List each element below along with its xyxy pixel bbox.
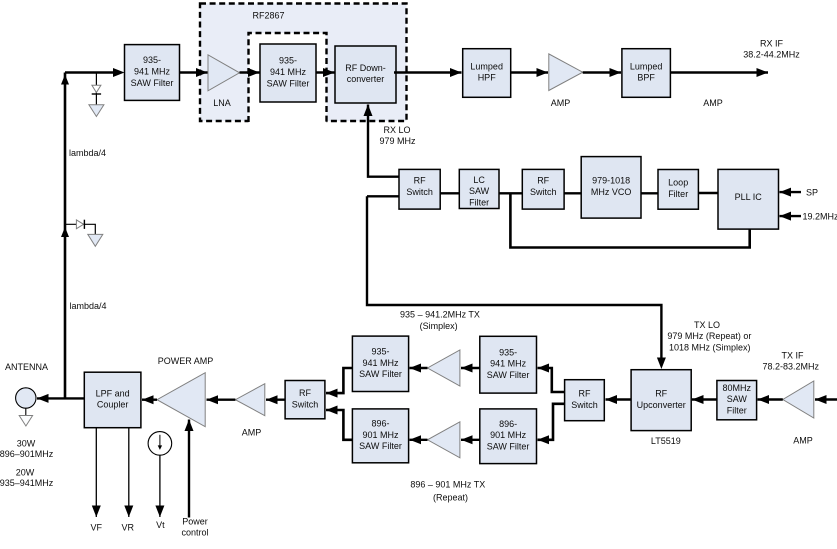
wire power control in	[188, 420, 190, 518]
wire TX IF in	[815, 398, 837, 400]
svg-text:20W: 20W	[16, 468, 35, 478]
wire 896 SAW to amp	[461, 439, 480, 441]
diode D1 (down)	[92, 85, 101, 94]
svg-text:901 MHz: 901 MHz	[490, 430, 527, 440]
svg-text:935 – 941.2MHz TX: 935 – 941.2MHz TX	[400, 310, 480, 320]
svg-text:LT5519: LT5519	[651, 436, 681, 446]
svg-text:Lumped: Lumped	[470, 61, 503, 71]
diode D2 (right)	[76, 220, 84, 229]
wire downconverter to HPF	[394, 71, 462, 73]
svg-text:Filter: Filter	[727, 405, 747, 415]
wire PA switch to driver amp	[266, 399, 285, 401]
svg-text:TX IF: TX IF	[782, 350, 805, 360]
svg-text:SAW Filter: SAW Filter	[487, 442, 530, 452]
block RF switch M2	[522, 169, 564, 209]
svg-text:901 MHz: 901 MHz	[362, 430, 399, 440]
svg-text:AMP: AMP	[242, 428, 262, 438]
svg-text:SAW Filter: SAW Filter	[359, 441, 402, 451]
wire TX LO bus	[367, 196, 661, 358]
termination triangle T1	[89, 105, 104, 117]
block RX SAW filter 2	[260, 44, 316, 102]
wire M2 to VCO	[564, 192, 581, 194]
wire loop filter to PLL	[698, 192, 718, 194]
wire Vt out	[159, 455, 161, 517]
arrowhead up arrow at TX junction	[61, 227, 69, 237]
svg-text:979-1018: 979-1018	[592, 176, 630, 186]
svg-text:Switch: Switch	[406, 187, 433, 197]
svg-text:941 MHz: 941 MHz	[134, 67, 171, 77]
svg-text:AMP: AMP	[551, 98, 571, 108]
svg-text:SAW Filter: SAW Filter	[131, 78, 174, 88]
svg-text:19.2MHz: 19.2MHz	[803, 212, 837, 222]
wire RX top bus	[65, 71, 114, 73]
wire LPF to antenna	[37, 397, 84, 399]
svg-text:BPF: BPF	[637, 73, 655, 83]
svg-text:Lumped: Lumped	[630, 61, 663, 71]
svg-text:RF: RF	[537, 176, 549, 186]
amplifier power amp	[157, 373, 205, 427]
svg-text:RF2867: RF2867	[252, 11, 284, 21]
svg-text:converter: converter	[347, 74, 385, 84]
block Lumped HPF	[463, 49, 511, 98]
block PLL IC	[718, 169, 779, 229]
svg-text:LC: LC	[473, 175, 485, 185]
wire VF out	[95, 428, 97, 517]
wire 896 left to PA switch	[326, 410, 352, 440]
wire power amp to LPF	[142, 399, 157, 401]
block TX SAW 896 left	[352, 409, 408, 463]
limiter stub 1 wire	[95, 73, 97, 105]
svg-text:Upconverter: Upconverter	[637, 400, 686, 410]
svg-text:ANTENNA: ANTENNA	[5, 362, 48, 372]
svg-text:RF Down-: RF Down-	[345, 63, 386, 73]
svg-text:VR: VR	[121, 523, 134, 533]
wire TX amp to 80MHz SAW	[758, 398, 783, 400]
wire M1 to LC SAW	[440, 192, 459, 194]
svg-text:VF: VF	[90, 523, 102, 533]
limiter stub 2 wire	[65, 224, 95, 234]
arrowhead up arrow at RX junction	[61, 75, 69, 85]
svg-text:896-: 896-	[371, 419, 389, 429]
wire amp to 935 SAW left	[410, 367, 428, 369]
svg-text:(Repeat): (Repeat)	[433, 493, 468, 503]
svg-text:LPF and: LPF and	[96, 388, 130, 398]
svg-text:935-: 935-	[143, 55, 161, 65]
meter symbol (Vt sense)	[148, 432, 172, 456]
svg-text:78.2-83.2MHz: 78.2-83.2MHz	[763, 361, 820, 371]
amplifier TX amp upper	[428, 350, 460, 386]
svg-text:POWER AMP: POWER AMP	[158, 356, 214, 366]
svg-text:MHz VCO: MHz VCO	[591, 187, 632, 197]
block TX SAW 935 right	[480, 336, 537, 393]
svg-text:935–941MHz: 935–941MHz	[0, 478, 54, 488]
svg-text:control: control	[181, 528, 208, 538]
svg-text:HPF: HPF	[478, 73, 497, 83]
wire AMP1 to BPF	[583, 71, 621, 73]
wire SAW2 to downconverter	[316, 71, 335, 73]
block LPF and coupler	[84, 372, 141, 428]
wire VR out	[128, 428, 130, 517]
arrowhead into RX SAW filter 1	[113, 68, 125, 77]
wire 19.2MHz input	[780, 215, 802, 217]
svg-text:Switch: Switch	[292, 399, 319, 409]
wire SAW1 to LNA	[180, 71, 208, 73]
svg-text:lambda/4: lambda/4	[69, 148, 106, 158]
external SAW notch (white cut-out)	[249, 33, 327, 125]
svg-text:38.2-44.2MHz: 38.2-44.2MHz	[743, 50, 800, 60]
svg-text:Filter: Filter	[469, 197, 489, 207]
svg-text:RF: RF	[655, 389, 667, 399]
svg-text:AMP: AMP	[703, 98, 723, 108]
wire 80MHz SAW to upconverter	[692, 398, 717, 400]
amplifier AMP1	[549, 54, 583, 108]
svg-text:896-: 896-	[499, 419, 517, 429]
block VCO	[581, 157, 641, 219]
block PA RF switch	[285, 381, 325, 419]
svg-text:941 MHz: 941 MHz	[362, 358, 399, 368]
block TX SAW 935 left	[352, 336, 408, 391]
svg-text:SAW Filter: SAW Filter	[267, 78, 310, 88]
svg-text:RF: RF	[299, 388, 311, 398]
arrowhead TX LO into upconverter	[657, 358, 666, 370]
svg-text:SP: SP	[806, 188, 818, 198]
amplifier driver AMP	[235, 384, 264, 438]
svg-text:TX LO: TX LO	[694, 320, 720, 330]
svg-text:935-: 935-	[499, 347, 517, 357]
svg-text:941 MHz: 941 MHz	[270, 67, 307, 77]
svg-text:SAW: SAW	[469, 186, 490, 196]
svg-text:80MHz: 80MHz	[723, 383, 752, 393]
block RF upconverter	[631, 370, 691, 431]
wire 935 left to PA switch	[326, 368, 352, 393]
svg-text:896 – 901 MHz TX: 896 – 901 MHz TX	[410, 480, 485, 490]
svg-text:AMP: AMP	[793, 435, 813, 445]
block TX SAW 896 right	[480, 409, 537, 464]
svg-text:RX IF: RX IF	[760, 39, 784, 49]
svg-text:lambda/4: lambda/4	[69, 301, 106, 311]
svg-text:RF: RF	[579, 389, 591, 399]
wire LC SAW to M2	[499, 192, 522, 194]
svg-text:RF: RF	[414, 176, 426, 186]
termination triangle T2	[88, 234, 103, 246]
block LC SAW filter	[459, 169, 499, 208]
wire 935 SAW to amp	[461, 367, 480, 369]
wire RX LO	[368, 105, 399, 177]
wire TX switch upper out	[538, 368, 565, 392]
svg-text:SAW Filter: SAW Filter	[359, 369, 402, 379]
svg-text:30W: 30W	[17, 438, 36, 448]
amplifier AMP TX in	[783, 381, 814, 445]
svg-text:SAW: SAW	[727, 394, 748, 404]
svg-text:979 MHz (Repeat) or: 979 MHz (Repeat) or	[667, 331, 751, 341]
wire amp to 896 SAW left	[410, 439, 428, 441]
block RF switch M1	[399, 169, 440, 209]
svg-text:SAW Filter: SAW Filter	[487, 370, 530, 380]
wire HPF to AMP1	[511, 71, 548, 73]
wire upconverter to TX switch	[606, 398, 632, 400]
amplifier TX amp lower	[428, 422, 460, 458]
block Lumped BPF	[622, 49, 671, 98]
svg-text:Loop: Loop	[668, 178, 688, 188]
svg-text:(Simplex): (Simplex)	[420, 321, 458, 331]
wire antenna feed vertical	[64, 73, 67, 399]
svg-text:Filter: Filter	[668, 189, 688, 199]
svg-text:RX LO: RX LO	[383, 125, 410, 135]
wire SPI input	[780, 191, 802, 193]
module RF2867 dashed box	[200, 4, 407, 122]
svg-text:LNA: LNA	[213, 98, 231, 108]
block RX SAW filter 1	[125, 45, 180, 101]
svg-text:Coupler: Coupler	[97, 400, 129, 410]
wire RX IF out	[670, 71, 768, 73]
block 80MHz SAW filter	[717, 381, 757, 420]
svg-text:935-: 935-	[279, 56, 297, 66]
block TX RF switch	[565, 380, 605, 421]
svg-text:1018 MHz (Simplex): 1018 MHz (Simplex)	[669, 342, 751, 352]
block Loop filter	[658, 170, 698, 210]
wire TX switch lower out	[538, 404, 565, 440]
svg-text:Switch: Switch	[571, 400, 598, 410]
svg-text:Power: Power	[182, 517, 208, 527]
svg-text:896–901MHz: 896–901MHz	[0, 449, 54, 459]
svg-text:PLL IC: PLL IC	[735, 192, 763, 202]
svg-text:Switch: Switch	[530, 187, 557, 197]
wire LNA to RX SAW 2	[240, 71, 260, 73]
antenna symbol	[16, 388, 36, 426]
wire driver amp to power amp	[207, 399, 236, 401]
wire PLL feedback	[510, 194, 749, 248]
block RF downconverter	[335, 46, 396, 103]
wire VCO to loop filter	[641, 192, 658, 194]
wire M1 lower stub	[367, 195, 399, 197]
amplifier LNA	[208, 55, 240, 108]
svg-text:935-: 935-	[371, 347, 389, 357]
svg-text:Vt: Vt	[156, 520, 165, 530]
svg-text:941 MHz: 941 MHz	[490, 359, 527, 369]
svg-text:979 MHz: 979 MHz	[379, 136, 416, 146]
